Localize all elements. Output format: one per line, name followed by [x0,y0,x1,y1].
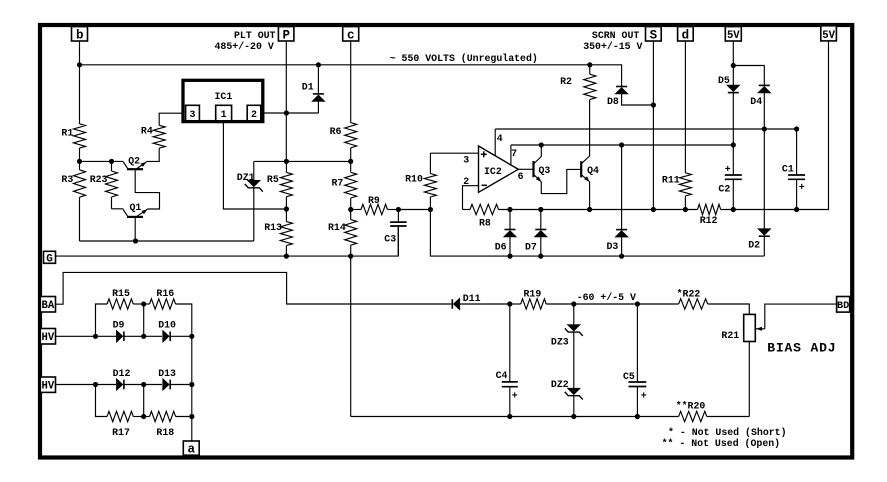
diode D7 [540,210,542,230]
diode D8 [616,86,627,88]
wire HV2 right [170,384,192,386]
wire IC1 pin1 to node [223,121,286,209]
svg-text:R19: R19 [524,289,542,300]
wire ground link drop [430,210,764,257]
wire D5 to C2 [732,93,734,175]
node HV2 left junction [93,382,98,387]
node D6 bottom junction [507,254,512,259]
node C4 bottom junction [507,414,512,419]
diode D13 [169,380,171,390]
node G R13 junction [284,254,289,259]
svg-text:D2: D2 [748,240,760,251]
wire pot wiper [765,304,837,329]
transistor Q4 [580,161,582,177]
svg-text:d: d [682,29,690,43]
wire op-amp output [518,168,533,170]
svg-text:+: + [725,164,731,175]
wire Q4 emitter [589,182,591,210]
wire base row [80,160,124,162]
terminal HV lower [40,377,55,392]
zener DZ2 [567,388,580,395]
svg-text:C2: C2 [718,183,730,194]
resistor R13 [285,209,287,222]
node R17 R18 junction [141,414,146,419]
resistor R18 [144,416,150,418]
svg-text:-60 +/-5 V: -60 +/-5 V [577,292,636,303]
wire HV2 mid [124,384,162,386]
svg-text:**R20: **R20 [676,401,706,412]
svg-text:D4: D4 [750,96,762,107]
resistor R14 [350,210,352,220]
terminal G [44,251,56,263]
node HV1 left junction [93,334,98,339]
svg-text:350+/-15 V: 350+/-15 V [583,41,642,52]
terminal BD [837,297,850,313]
IC1 pin 2 [247,105,261,121]
wire op-amp minus input [463,186,479,210]
node DZ2 bottom junction [571,414,576,419]
svg-text:D5: D5 [718,75,730,86]
terminal 5V left [725,27,741,41]
diode D9 [123,332,125,342]
node C3 top junction [396,207,401,212]
svg-text:D10: D10 [158,320,176,331]
capacitor C3 [397,210,399,223]
node C2 bottom junction [731,207,736,212]
node R11 bottom junction [683,207,688,212]
svg-text:R15: R15 [112,288,130,299]
terminal HV upper [40,329,55,345]
wire Q2 collector [135,169,159,209]
svg-text:C3: C3 [384,234,396,245]
resistor R19 [510,303,521,305]
diode D10 [169,332,171,342]
svg-text:D13: D13 [158,368,176,379]
svg-text:R5: R5 [267,174,279,185]
svg-text:D6: D6 [495,242,507,253]
svg-text:+: + [799,182,805,193]
resistor R12 [698,204,721,214]
node D6 top junction [507,207,512,212]
svg-text:+: + [641,391,647,402]
svg-text:6: 6 [518,171,524,182]
svg-text:G: G [46,253,53,265]
svg-text:SCRN OUT: SCRN OUT [592,30,639,41]
capacitor C5 [636,304,638,382]
wire pot bottom [748,342,750,417]
node R15 R16 junction [141,301,146,306]
svg-text:IC2: IC2 [484,166,502,177]
diode D6 [509,210,511,230]
svg-text:+: + [512,391,518,402]
diode D4 [759,84,770,86]
svg-text:485+/-20 V: 485+/-20 V [215,41,274,52]
svg-text:R14: R14 [328,222,346,233]
resistor R23 [111,161,113,171]
svg-text:** - Not Used (Open): ** - Not Used (Open) [662,438,781,449]
wire R22 to pot [708,304,750,314]
wire R17 R18 drop [143,385,145,417]
terminal c [343,27,359,41]
transistor Q3 [532,161,534,177]
terminal P [278,27,294,41]
wire BA path [56,272,452,304]
svg-text:R2: R2 [560,76,572,87]
node b rail junction [77,62,82,67]
diode D1 [317,65,319,94]
terminal d [678,27,694,41]
svg-text:R12: R12 [700,215,718,226]
wire op-amp pin4 [494,129,496,156]
svg-text:BA: BA [42,300,55,312]
svg-text:R7: R7 [332,177,344,188]
node HV1 right junction [189,334,194,339]
wire -60 bottom rail [351,416,679,418]
resistor R22 [679,299,708,309]
svg-text:7: 7 [511,148,517,159]
wire Q1 collector [134,217,136,241]
svg-text:*R22: *R22 [677,289,701,300]
svg-text:R6: R6 [330,126,342,137]
wire 5V left line [732,41,734,86]
wire R16 mid drop [143,304,145,336]
wire c line drop [350,256,352,416]
svg-text:* - Not Used (Short): * - Not Used (Short) [668,427,787,438]
node Q4 emitter junction [587,207,592,212]
svg-text:R4: R4 [141,125,153,136]
wire R9 to R10 node [398,209,430,211]
svg-text:R1: R1 [61,128,73,139]
wire bottom left rail [80,240,254,242]
svg-text:~ 550 VOLTS (Unregulated): ~ 550 VOLTS (Unregulated) [390,53,538,64]
resistor R9 [351,209,361,211]
zener DZ3 [573,304,575,325]
svg-text:C5: C5 [623,371,635,382]
wire S line [652,41,654,210]
svg-text:R11: R11 [662,174,680,185]
svg-text:BIAS ADJ: BIAS ADJ [767,341,836,356]
svg-text:Q2: Q2 [128,155,140,166]
diode D5 [728,92,739,94]
svg-text:PLT OUT: PLT OUT [234,30,276,41]
node D5 top junction [731,63,736,68]
node C5 bottom junction [635,414,640,419]
IC U IC1 [183,80,263,121]
svg-text:D3: D3 [607,241,619,252]
node C4 top junction [507,301,512,306]
wire P line [285,41,287,161]
node C5 top junction [635,301,640,306]
svg-text:D7: D7 [525,242,537,253]
node DZ3 top junction [571,301,576,306]
svg-text:R21: R21 [721,330,739,341]
resistor R16 [144,303,150,305]
svg-text:BD: BD [837,301,849,312]
node R1 bottom junction [77,159,82,164]
wire output rail [499,209,698,211]
diode D2 [763,129,765,230]
node R6 bottom junction [348,159,353,164]
node R7 bottom junction [348,207,353,212]
wire 550V rail [79,41,81,65]
wire DZ1 top row [254,160,351,162]
svg-text:Q1: Q1 [130,202,142,213]
node D8 S junction [651,102,656,107]
wire HV2 row [56,384,117,386]
node Q1 collector junction [133,238,138,243]
node D3 top junction [619,142,624,147]
capacitor C2 [725,174,742,176]
node R23 top junction [109,159,114,164]
svg-text:D9: D9 [113,320,125,331]
IC1 pin 3 [186,105,200,121]
node P R5 junction [284,159,289,164]
wire op-amp pin7 [510,145,512,165]
wire R17 riser [96,385,108,417]
wire HV1 row [56,335,117,337]
zener DZ1 [253,161,255,180]
resistor R10 [429,153,431,173]
wire d line [684,41,686,173]
node D12 D13 junction [141,382,146,387]
svg-text:c: c [347,28,355,42]
wire Q3 collector [540,145,542,157]
svg-text:D11: D11 [463,293,481,304]
svg-text:R17: R17 [112,427,130,438]
wire pin7 rail [511,144,733,146]
node R2 top junction [587,62,592,67]
wire Q1 base link [112,208,123,210]
terminal b [72,27,88,41]
svg-text:D12: D12 [113,368,131,379]
terminal 5V right [821,26,837,41]
resistor R8 [463,209,471,211]
diode D11 [451,299,453,309]
svg-text:a: a [188,442,196,456]
svg-text:P: P [282,28,290,42]
node D7 top junction [538,207,543,212]
wire right column [191,336,193,441]
diode D12 [123,380,125,390]
svg-text:4: 4 [497,133,503,144]
node R10 bottom junction [428,207,433,212]
svg-text:R18: R18 [156,427,174,438]
node pin2 junction [284,110,289,115]
svg-text:R23: R23 [90,174,108,185]
wire c line [350,41,352,123]
node R5 bottom junction [284,206,289,211]
op-amp U IC2 [479,146,519,192]
node Q3 collector junction [539,142,544,147]
node HV2 right junction [189,382,194,387]
svg-text:D8: D8 [607,96,619,107]
resistor R5 [280,172,292,196]
node C1 bottom junction [794,207,799,212]
terminal S [646,27,662,41]
svg-text:b: b [76,29,84,43]
wire rail to 5V right [721,41,829,210]
wire R10 top to op-amp plus [430,152,478,154]
svg-text:HV: HV [42,332,55,344]
svg-text:HV: HV [42,381,55,393]
svg-text:C4: C4 [496,370,508,381]
svg-text:R10: R10 [405,173,423,184]
resistor R7 [350,161,352,172]
resistor R20 [679,411,707,421]
svg-text:S: S [650,28,658,42]
node D7 bottom junction [538,254,543,259]
diode D3 [621,145,623,230]
wire HV1 mid [124,335,162,337]
svg-text:IC1: IC1 [215,91,233,102]
transistor Q2 [127,168,143,170]
potentiometer R21 [744,314,756,341]
node C1 top junction [794,126,799,131]
wire BA riser R15 row [96,304,108,336]
wire -60 row [574,303,679,305]
svg-text:Q3: Q3 [539,165,551,176]
wire G rail [56,226,399,256]
svg-text:DZ1: DZ1 [237,172,255,183]
capacitor C4 [509,304,511,382]
terminal BA [40,297,55,313]
svg-text:D1: D1 [302,81,314,92]
svg-text:R3: R3 [61,174,73,185]
svg-text:DZ3: DZ3 [551,337,569,348]
svg-text:3: 3 [190,109,196,120]
resistor R1 [79,65,81,124]
svg-text:5V: 5V [822,30,835,42]
wire Q3 emitter to Q4 base [541,169,581,193]
svg-text:R13: R13 [264,222,282,233]
node R18 right junction [189,414,194,419]
svg-text:3: 3 [463,154,469,165]
svg-text:5V: 5V [727,30,740,42]
resistor R15 [107,299,133,309]
capacitor C1 [796,129,798,175]
node D3 bottom junction [619,254,624,259]
wire Q4 collector to R2 [589,100,591,156]
svg-text:R9: R9 [368,195,380,206]
terminal a [183,441,199,455]
wire 550V rail horizontal [80,65,622,87]
svg-text:2: 2 [251,109,257,120]
svg-text:C1: C1 [782,164,794,175]
svg-text:Q4: Q4 [587,165,599,176]
resistor R11 [679,173,691,196]
IC1 pin 1 [216,105,232,121]
transistor Q1 [127,216,143,218]
svg-text:R8: R8 [479,218,491,229]
wire IC1 pin2 to P line [263,112,287,114]
resistor R17 [107,411,133,421]
wire pin4 rail [495,128,796,130]
node S bottom junction [651,207,656,212]
wire HV1 right [170,335,192,337]
resistor R2 [589,65,591,74]
resistor R4 [159,113,183,125]
svg-text:R16: R16 [156,288,174,299]
wire Q2 emitter to R4 [146,148,159,161]
svg-text:1: 1 [221,109,227,120]
node D4 bottom junction [762,126,767,131]
resistor R3 [74,170,86,197]
resistor R6 [345,123,357,148]
node R14 bottom junction [348,254,353,259]
node D5 145 junction [731,142,736,147]
wire jog to D4 [733,66,764,86]
node D1 top junction [316,62,321,67]
node D9 D10 junction [141,334,146,339]
svg-text:DZ2: DZ2 [551,379,569,390]
